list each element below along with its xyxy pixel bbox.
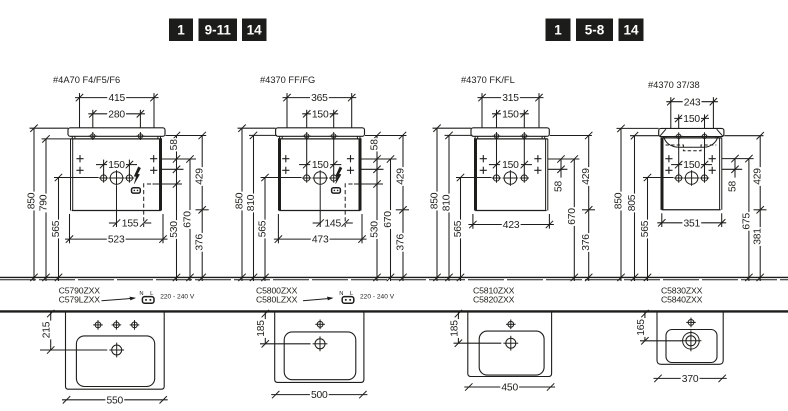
basin 1 width dimension 550: [62, 399, 168, 401]
svg-text:850: 850: [235, 192, 246, 209]
svg-text:#4370 FK/FL: #4370 FK/FL: [461, 75, 515, 85]
svg-text:58: 58: [169, 139, 180, 151]
col2 cabinet width dimension 473: [277, 214, 279, 243]
svg-text:#4A70 F4/F5/F6: #4A70 F4/F5/F6: [53, 75, 120, 85]
svg-text:675: 675: [741, 213, 752, 230]
svg-text:185: 185: [256, 320, 267, 337]
basin 2 inner bowl outline: [284, 332, 356, 380]
basin 1 tap holes: [95, 322, 101, 328]
basin 4 inner bowl outline: [666, 330, 717, 363]
col2 lightning bolt electrical symbol: [336, 167, 342, 184]
svg-text:185: 185: [449, 320, 460, 337]
svg-text:429: 429: [195, 168, 206, 185]
col2 drain offset dimension 145: [319, 211, 321, 228]
svg-text:376: 376: [581, 234, 592, 251]
basin 1 inner bowl outline: [76, 336, 154, 387]
basin 4 top view outline: [657, 313, 723, 365]
wall line above top views: [0, 310, 788, 312]
col2 right reference lines: [365, 135, 407, 137]
basin 4 width dimension 370: [654, 377, 727, 379]
col3 top width dimension 315: [481, 93, 483, 128]
svg-text:670: 670: [183, 211, 194, 228]
col1 mounting point crosses: [76, 158, 83, 160]
svg-text:C5840ZXX: C5840ZXX: [661, 295, 703, 305]
col2 vanity cabinet front view: [278, 138, 362, 140]
col3 height dimension 670: [573, 159, 575, 281]
svg-text:150: 150: [108, 160, 125, 171]
col4 cabinet width dimension 351: [661, 213, 663, 227]
svg-text:810: 810: [442, 194, 453, 211]
col2 tap holes on basin: [305, 134, 309, 138]
col1 height dimension 670: [189, 159, 191, 281]
svg-text:243: 243: [684, 97, 701, 108]
svg-text:165: 165: [636, 319, 647, 336]
col2 height dimension 429 376: [402, 136, 404, 282]
col3 tap-hole spacing dimension 150: [496, 110, 498, 174]
svg-text:429: 429: [581, 168, 592, 185]
svg-text:805: 805: [627, 194, 638, 211]
svg-text:850: 850: [614, 192, 625, 209]
col2 height dimension 58 530: [376, 136, 378, 282]
col1 drain offset dimension 155: [116, 211, 118, 228]
svg-text:850: 850: [27, 192, 38, 209]
svg-text:150: 150: [312, 160, 329, 171]
basin 4 drain: [683, 333, 700, 350]
svg-text:381: 381: [753, 228, 764, 245]
col4 basin bowl contour: [664, 137, 718, 148]
col4 right reference lines: [724, 135, 763, 137]
svg-text:550: 550: [107, 395, 124, 406]
col1 washbasin front view: [68, 128, 165, 137]
svg-text:58: 58: [728, 181, 739, 193]
col4 mounting point crosses: [665, 158, 672, 160]
col1 height dimension 790: [42, 138, 71, 140]
col4 top width dimension 243: [670, 97, 672, 128]
col4 hidden bowl underside (dashed): [666, 145, 717, 151]
svg-text:429: 429: [396, 168, 407, 185]
col2 dashed electrical supply line: [344, 183, 346, 227]
col1 top width dimension 415: [79, 93, 81, 128]
col1 tap-hole spacing dimension 280: [92, 110, 94, 137]
col2 top width dimension 365: [286, 93, 288, 128]
svg-text:N: N: [339, 291, 343, 297]
svg-text:376: 376: [396, 234, 407, 251]
svg-text:150: 150: [683, 160, 700, 171]
floor line under front views: [0, 276, 788, 278]
col3 connection spacing dimension 150: [489, 164, 500, 166]
svg-text:565: 565: [258, 220, 269, 237]
col1 tap holes on basin: [91, 134, 95, 138]
col2 height dimension 850: [238, 127, 276, 129]
svg-text:5-8: 5-8: [585, 23, 605, 38]
basin 2 drain: [315, 339, 325, 349]
col3 tap holes on basin: [494, 134, 498, 138]
col2 washbasin front view: [276, 128, 365, 137]
svg-text:280: 280: [108, 109, 125, 120]
col4 height dimension 58: [734, 159, 736, 178]
col3 vanity cabinet front view: [474, 138, 548, 140]
svg-text:14: 14: [623, 23, 639, 38]
svg-text:850: 850: [430, 192, 441, 209]
col1 socket symbol inside cabinet: [132, 188, 141, 193]
badge group left: pages 1, 9-11, 14: [169, 19, 193, 42]
svg-text:370: 370: [682, 374, 699, 385]
col4 height dimension 565: [643, 177, 674, 179]
col1 water supply and drain connections: [101, 175, 107, 181]
svg-text:351: 351: [684, 218, 701, 229]
col1 mains socket symbol N L 220-240V: [142, 297, 154, 304]
svg-text:810: 810: [246, 194, 257, 211]
col1 vanity cabinet front view: [71, 138, 163, 140]
basin 2 tap holes: [317, 321, 323, 327]
svg-text:365: 365: [311, 93, 328, 104]
col3 height dimension 58: [560, 159, 562, 178]
svg-text:14: 14: [247, 23, 263, 38]
col3 cabinet width dimension 423: [472, 214, 474, 229]
basin 1 depth dimension 215: [50, 312, 52, 350]
svg-text:155: 155: [122, 218, 139, 229]
col4 vanity cabinet front view: [661, 137, 722, 139]
col4 water supply and drain connections: [676, 175, 682, 181]
svg-text:N: N: [139, 291, 143, 297]
svg-text:58: 58: [370, 139, 381, 151]
basin 3 tap holes: [508, 321, 514, 327]
col1 cabinet width dimension 523: [69, 214, 71, 243]
svg-text:1: 1: [554, 23, 562, 38]
col1 height dimension 58 530: [176, 136, 178, 282]
svg-text:565: 565: [51, 220, 62, 237]
col3 washbasin front view: [471, 128, 549, 137]
svg-text:145: 145: [324, 218, 341, 229]
svg-text:565: 565: [640, 220, 651, 237]
svg-text:#4370 37/38: #4370 37/38: [648, 80, 700, 90]
col1 connection spacing dimension 150: [103, 160, 105, 174]
svg-text:C580LZXX: C580LZXX: [256, 295, 298, 305]
svg-text:565: 565: [453, 220, 464, 237]
svg-text:523: 523: [108, 235, 125, 246]
svg-text:376: 376: [195, 234, 206, 251]
svg-text:#4370 FF/FG: #4370 FF/FG: [260, 75, 315, 85]
col3 right reference lines: [550, 135, 592, 137]
col4 height dimension 805: [630, 135, 659, 137]
svg-text:1: 1: [177, 23, 185, 38]
svg-text:58: 58: [554, 181, 565, 193]
basin 2 depth dimension 185: [264, 312, 266, 343]
svg-text:500: 500: [311, 390, 328, 401]
col3 height dimension 429 376: [588, 136, 590, 282]
svg-text:315: 315: [502, 93, 519, 104]
basin 4 tap holes: [688, 320, 694, 326]
svg-text:C579LZXX: C579LZXX: [59, 295, 101, 305]
svg-text:220 - 240 V: 220 - 240 V: [360, 294, 395, 301]
col4 height dimension 850: [617, 127, 659, 129]
col2 tap-hole spacing dimension 150: [306, 110, 308, 174]
badge group right: pages 1, 5-8, 14: [546, 19, 571, 42]
basin 4 depth dimension 165: [644, 312, 646, 340]
col2 mains socket symbol N L 220-240V: [342, 297, 354, 304]
svg-text:220 - 240 V: 220 - 240 V: [160, 294, 195, 301]
svg-text:150: 150: [502, 160, 519, 171]
svg-text:473: 473: [312, 235, 329, 246]
col3 height dimension 850: [433, 127, 472, 129]
col3 height dimension 565: [456, 177, 492, 179]
col4 tap holes on basin: [677, 134, 681, 138]
col2 height dimension 670: [390, 159, 392, 281]
col4 height dimension 429 381: [759, 136, 761, 281]
svg-text:670: 670: [567, 208, 578, 225]
col1 right reference lines: [166, 135, 207, 137]
basin 3 drain: [506, 338, 516, 348]
basin 2 width dimension 500: [271, 394, 367, 396]
col1 height dimension 429 376: [201, 136, 203, 282]
svg-text:530: 530: [370, 221, 381, 238]
col2 height dimension 810: [249, 134, 277, 136]
svg-text:215: 215: [42, 321, 53, 338]
col3 water supply and drain connections: [493, 175, 499, 181]
col1 height dimension 565: [54, 177, 99, 179]
col3 mounting point crosses: [480, 158, 487, 160]
col2 mounting point crosses: [282, 158, 289, 160]
col4 connection spacing dimension 150: [671, 164, 682, 166]
basin 1 top view outline: [66, 313, 165, 390]
svg-text:423: 423: [503, 220, 520, 231]
col4 height dimension 675: [748, 159, 750, 281]
svg-text:150: 150: [312, 109, 329, 120]
basin 3 inner bowl outline: [479, 331, 544, 375]
col1 dashed electrical supply line: [143, 183, 145, 227]
basin 3 width dimension 450: [464, 386, 555, 388]
svg-text:450: 450: [501, 383, 518, 394]
svg-text:9-11: 9-11: [205, 23, 232, 38]
svg-text:C5820ZXX: C5820ZXX: [473, 295, 515, 305]
col1 arrow to mains symbol: [102, 298, 135, 301]
basin 1 drain: [112, 345, 122, 355]
svg-text:530: 530: [169, 221, 180, 238]
col2 arrow to mains symbol: [303, 298, 332, 301]
col2 connection spacing dimension 150: [299, 164, 310, 166]
basin 3 depth dimension 185: [457, 312, 459, 343]
col4 washbasin front view: [659, 128, 724, 136]
basin 2 top view outline: [275, 313, 364, 383]
col4 tap-hole spacing dimension 150: [678, 114, 680, 173]
basin 3 top view outline: [468, 313, 552, 377]
col1 lightning bolt electrical symbol: [134, 167, 140, 184]
col1 height dimension 850: [30, 127, 69, 129]
col3 height dimension 810: [445, 134, 473, 136]
col2 water supply and drain connections: [304, 175, 310, 181]
col2 socket symbol inside cabinet: [332, 188, 341, 193]
svg-text:415: 415: [109, 93, 126, 104]
svg-text:429: 429: [753, 168, 764, 185]
svg-text:150: 150: [683, 114, 700, 125]
svg-text:150: 150: [502, 109, 519, 120]
col2 height dimension 565: [261, 177, 302, 179]
svg-text:670: 670: [383, 211, 394, 228]
svg-text:790: 790: [39, 194, 50, 211]
